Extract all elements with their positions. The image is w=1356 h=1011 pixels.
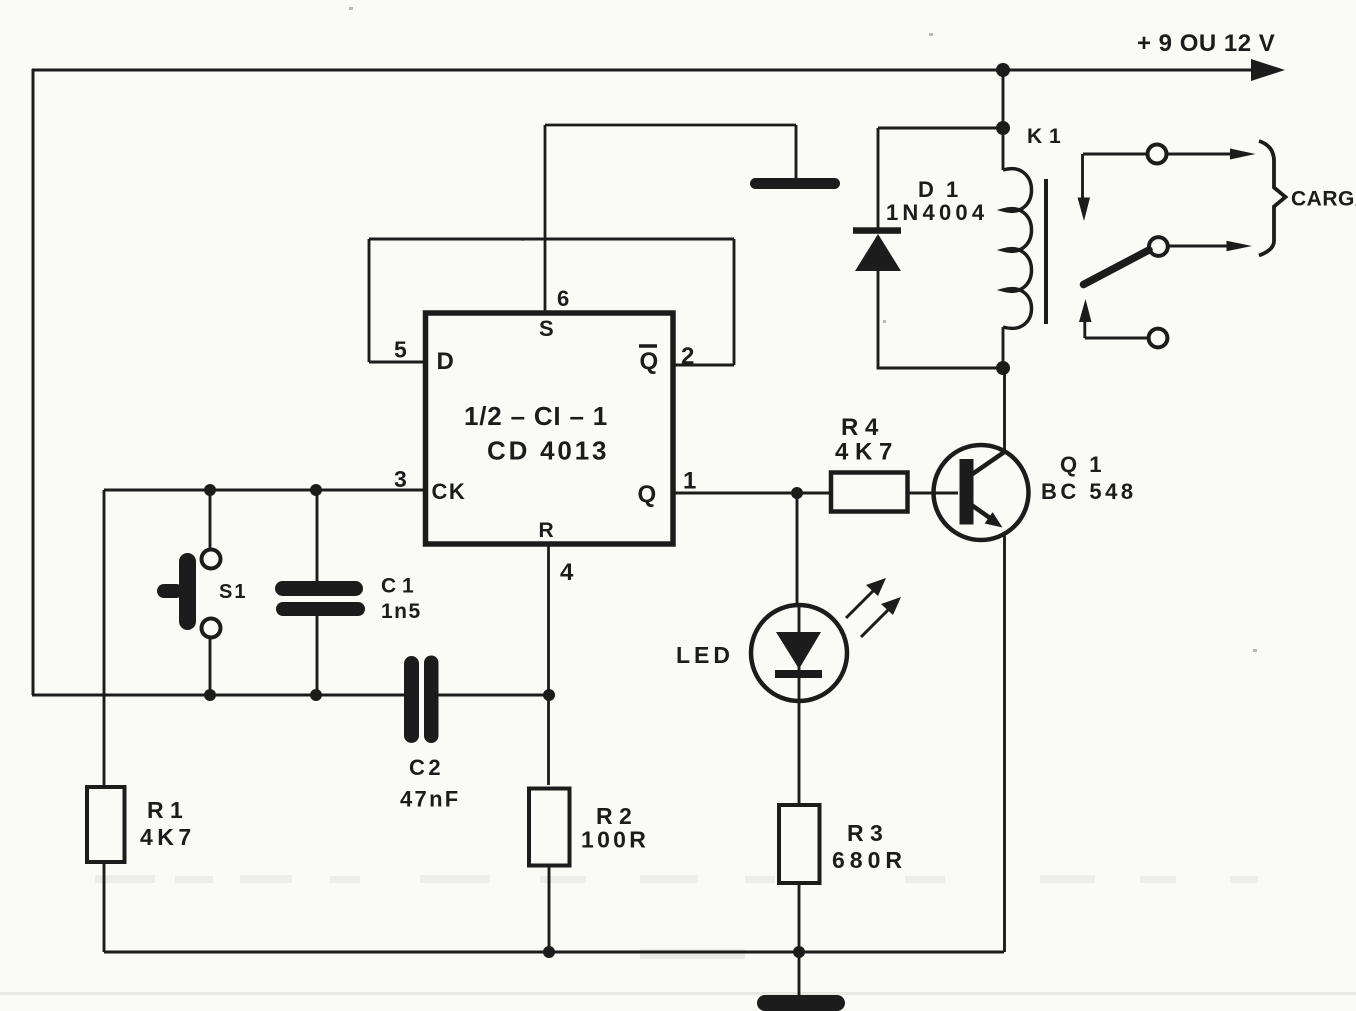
LED circle bbox=[751, 605, 847, 701]
scan artifact: specks bbox=[349, 7, 1257, 652]
wire: R1 to bottom bbox=[103, 863, 106, 952]
wire: C1 top stub bbox=[316, 490, 319, 583]
scan artifact: faint figura smudge bbox=[640, 949, 745, 959]
transistor Q1 collector stroke bbox=[971, 451, 1007, 476]
svg-text:D: D bbox=[437, 348, 454, 375]
LED light arrowhead 2 bbox=[881, 597, 901, 615]
svg-text:4: 4 bbox=[560, 559, 574, 586]
relay bottom terminal bbox=[1149, 329, 1168, 348]
LED wire bottom bbox=[798, 700, 801, 805]
svg-text:100R: 100R bbox=[581, 827, 649, 853]
pushbutton S1 actuator bar bbox=[179, 553, 196, 630]
diode D1 bottom wire bbox=[878, 268, 1003, 368]
svg-text:R 3: R 3 bbox=[847, 820, 883, 846]
wire: Q pin to node bbox=[673, 492, 797, 495]
pushbutton S1 actuator stub bbox=[157, 584, 183, 598]
wire: ground bottom rail bbox=[104, 951, 1004, 954]
relay NC up arrow line bbox=[1083, 320, 1086, 338]
svg-text:1: 1 bbox=[683, 468, 696, 495]
wire: R2 bottom bbox=[548, 866, 551, 952]
relay K1 coil bbox=[1003, 169, 1032, 329]
relay NC up arrowhead bbox=[1079, 299, 1092, 322]
relay common terminal bbox=[1149, 237, 1168, 256]
node dot +V rail K1 bbox=[996, 63, 1010, 77]
relay lever bbox=[1084, 250, 1150, 285]
ground stub bottom bbox=[798, 952, 801, 998]
LED internal wire bbox=[798, 606, 801, 700]
svg-text:680R: 680R bbox=[832, 847, 907, 873]
relay contact top arrow line bbox=[1166, 153, 1232, 156]
svg-text:CK: CK bbox=[432, 479, 467, 504]
diode D1 cathode bar bbox=[853, 227, 901, 234]
IC box U1 CD4013 bbox=[426, 313, 674, 544]
node dot D1-K1 bottom bbox=[996, 361, 1010, 375]
svg-text:C 1: C 1 bbox=[381, 575, 414, 598]
svg-text:4K7: 4K7 bbox=[140, 824, 196, 850]
transistor Q1 emitter arrowhead bbox=[985, 512, 1003, 527]
relay contact top arrowhead bbox=[1230, 149, 1256, 160]
pushbutton S1 stem top bbox=[209, 490, 212, 549]
relay NO down arrow line bbox=[1081, 154, 1084, 200]
wire: R4 to base bbox=[907, 492, 958, 495]
transistor Q1 circle bbox=[934, 445, 1029, 540]
svg-text:+ 9 OU 12 V: + 9 OU 12 V bbox=[1137, 30, 1275, 57]
svg-text:R: R bbox=[539, 519, 554, 542]
LED triangle bbox=[776, 632, 821, 669]
svg-text:4 K 7: 4 K 7 bbox=[835, 439, 892, 466]
wire: CK horizontal bbox=[104, 489, 424, 492]
svg-text:D 1: D 1 bbox=[918, 177, 961, 202]
wire: +V top rail bbox=[32, 69, 1256, 72]
node dot CK-C1 bbox=[310, 484, 322, 496]
resistor R3 bbox=[779, 805, 820, 883]
capacitor C2 plate left bbox=[404, 656, 419, 743]
LED cathode bar bbox=[775, 670, 822, 678]
relay K1 core bar bbox=[1044, 179, 1048, 324]
LED wire top bbox=[796, 493, 799, 606]
ground (upper, S/pin6) bbox=[750, 178, 840, 189]
svg-text:CD 4013: CD 4013 bbox=[487, 436, 609, 466]
svg-text:6: 6 bbox=[557, 286, 569, 311]
relay common arrow line bbox=[1167, 245, 1229, 248]
node dot bottom-C1 bbox=[310, 689, 322, 701]
wire: collector up to K1 bbox=[1003, 368, 1006, 452]
wire: middle horizontal (plus rail to C2) bbox=[32, 694, 404, 697]
relay common arrowhead bbox=[1227, 241, 1253, 251]
resistor R4 bbox=[831, 473, 908, 512]
node dot R3 bottom bbox=[793, 946, 805, 958]
transistor Q1 emitter stroke bbox=[972, 505, 991, 518]
svg-text:3: 3 bbox=[394, 466, 407, 492]
resistor R1 bbox=[87, 787, 125, 862]
pushbutton S1 bottom contact bbox=[202, 619, 221, 638]
svg-text:Q: Q bbox=[640, 348, 659, 375]
svg-text:R 4: R 4 bbox=[841, 414, 879, 441]
svg-text:S1: S1 bbox=[219, 581, 247, 603]
wire: pin4 vertical bbox=[547, 544, 550, 785]
node dot bottom-S1 bbox=[204, 689, 216, 701]
resistor R2 bbox=[529, 789, 570, 866]
LED light arrow 2 bbox=[861, 607, 891, 637]
Qbar overline bbox=[639, 344, 657, 348]
svg-text:5: 5 bbox=[394, 337, 407, 363]
node dot D1-K1 top bbox=[996, 121, 1010, 135]
wire: S top horizontal bbox=[545, 124, 796, 127]
scan artifact: faint streak line bbox=[0, 992, 1356, 995]
wire: C2 right to pin4 node bbox=[438, 694, 549, 697]
node dot Q/R4/LED bbox=[791, 487, 803, 499]
pushbutton S1 top contact bbox=[202, 550, 221, 569]
wire: R3 bottom bbox=[798, 883, 801, 952]
svg-text:1N4004: 1N4004 bbox=[886, 200, 988, 225]
svg-text:K 1: K 1 bbox=[1027, 125, 1061, 148]
svg-text:C2: C2 bbox=[409, 755, 444, 780]
relay contact top terminal bbox=[1148, 145, 1167, 164]
svg-text:LED: LED bbox=[676, 642, 734, 668]
svg-text:1/2 – CI – 1: 1/2 – CI – 1 bbox=[464, 401, 608, 431]
scan artifact: faint bleed-through text row bbox=[95, 875, 1258, 883]
wire: D loop top horizontal bbox=[369, 238, 734, 241]
wire: left border vertical bbox=[32, 69, 35, 695]
diode D1 top wire bbox=[878, 127, 1003, 130]
wire: emitter down to ground rail bbox=[1003, 535, 1006, 952]
node dot R2 bottom bbox=[543, 946, 555, 958]
power rail arrowhead bbox=[1251, 59, 1285, 81]
svg-text:BC 548: BC 548 bbox=[1041, 479, 1137, 504]
wire: vertical to R1 bbox=[103, 490, 106, 785]
wire: node to R4 bbox=[797, 492, 831, 495]
relay bottom contact wire bbox=[1085, 337, 1148, 340]
capacitor C1 plate top bbox=[275, 581, 363, 596]
diode D1 anode wire bbox=[877, 128, 880, 232]
svg-text:1n5: 1n5 bbox=[381, 600, 422, 623]
relay NO down arrowhead bbox=[1078, 198, 1091, 222]
LED light arrow 1 bbox=[846, 588, 876, 618]
capacitor C1 plate bottom bbox=[276, 602, 365, 616]
capacitor C2 plate right bbox=[424, 656, 439, 744]
node dot CK-S1 bbox=[204, 484, 216, 496]
svg-text:Q: Q bbox=[638, 481, 657, 508]
wire: down to upper ground bbox=[795, 125, 798, 178]
wire: C1 bottom stub bbox=[316, 614, 319, 695]
wire: D pin stub bbox=[369, 361, 424, 364]
svg-text:S: S bbox=[539, 316, 554, 341]
node dot pin4 bbox=[543, 689, 555, 701]
LED light arrowhead 1 bbox=[866, 578, 886, 596]
svg-text:CARGA: CARGA bbox=[1291, 188, 1356, 211]
pushbutton S1 stem bottom bbox=[209, 638, 212, 696]
wire: Qbar pin stub bbox=[674, 364, 734, 367]
diode D1 triangle bbox=[855, 234, 901, 271]
svg-text:47nF: 47nF bbox=[400, 787, 461, 812]
transistor Q1 base bar bbox=[960, 459, 974, 525]
wire: K1 bottom bbox=[1002, 327, 1005, 368]
svg-text:R 1: R 1 bbox=[147, 797, 183, 823]
svg-text:R 2: R 2 bbox=[596, 803, 632, 829]
wire: D loop left vertical bbox=[368, 239, 371, 362]
ground (bottom) bbox=[757, 995, 845, 1011]
wire: S pin up bbox=[544, 125, 547, 313]
relay contact top wire bbox=[1083, 153, 1148, 156]
svg-text:Q 1: Q 1 bbox=[1060, 452, 1104, 477]
wire: K1 top from +V bbox=[1002, 70, 1005, 170]
brace CARGA bbox=[1259, 141, 1286, 256]
wire: D loop right vertical bbox=[733, 239, 736, 365]
